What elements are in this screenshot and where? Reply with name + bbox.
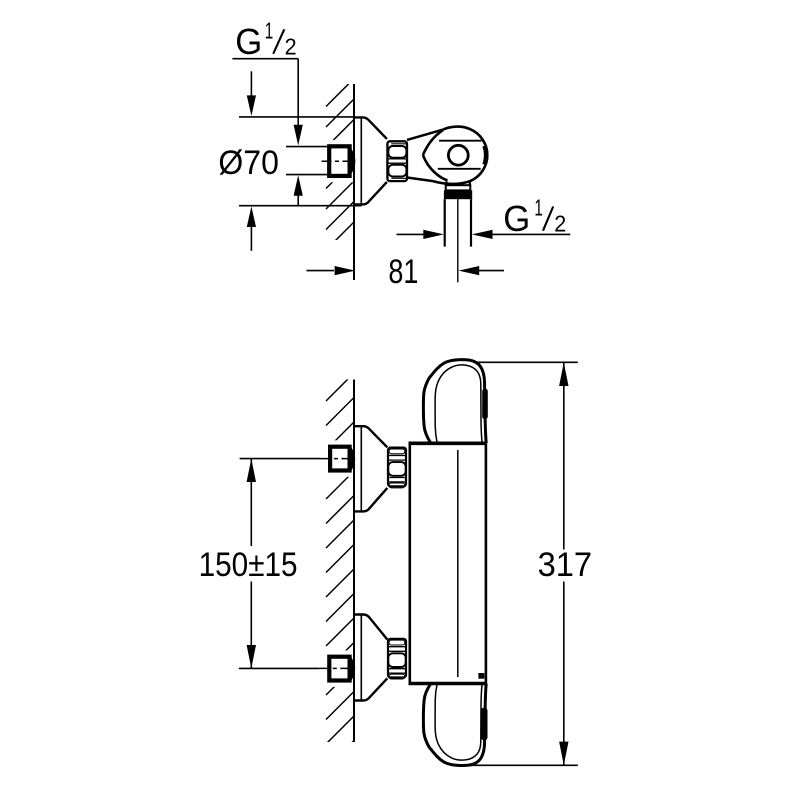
hex nut [387,141,407,181]
317 ext top [473,361,578,363]
grip line bottom [438,168,481,170]
upper flange outline bottom [354,488,387,512]
upper flange outline top [354,426,387,447]
svg-text:Ø70: Ø70 [218,144,279,182]
bottom knob outer [423,684,486,766]
top knob clip [482,389,488,420]
handle teardrop lower arc [423,155,448,180]
top knob inner [435,365,482,443]
thread dim line bottom [286,174,328,176]
hex nut bottom chamfer lens [391,177,406,179]
S-union ball end [350,151,353,173]
lower S-union square [329,657,349,681]
hose thread dim [397,233,424,235]
upper S-union ball end [350,449,353,469]
wall hatching (bottom figure) [326,373,354,769]
bottom knob clip [481,708,488,741]
hex nut facet lines [388,158,407,160]
white halo around wall union [323,140,354,182]
upper S-union square [330,447,350,471]
hex nut top chamfer lens [391,143,406,145]
outlet collar [446,185,471,190]
svg-text:G: G [235,21,262,62]
flange OD dim line top [239,116,354,118]
top knob outer [423,360,486,443]
body top edge [409,441,487,445]
escutcheon flange outline bottom [354,182,387,205]
thread dim line top [286,146,328,148]
svg-text:150±15: 150±15 [199,546,298,584]
body bottom edge [409,682,487,686]
outlet neck [446,182,448,186]
150 dim vertical [250,459,252,546]
OD arrow up [250,227,252,251]
wall surface line [353,380,355,743]
svg-text:2: 2 [285,34,297,60]
lower hex nut [388,639,406,678]
svg-text:317: 317 [538,546,593,584]
OD arrow down [250,71,252,96]
upper hex nut [388,448,406,487]
flange OD dim line bottom [239,205,362,207]
317 dim vertical [563,362,565,549]
thread arrow up [297,195,299,206]
upper ext/centerline [240,458,321,460]
81 dim line right [459,266,480,275]
svg-text:1: 1 [265,18,274,44]
white halo around lower union [323,650,354,687]
body inner line [457,450,459,677]
S-union square body [329,146,349,176]
grip line top [439,140,481,142]
svg-text:1: 1 [534,195,543,221]
white halo around upper union [323,440,354,477]
317 ext bottom [451,764,578,766]
lower S-union ball end [350,659,353,679]
svg-text:2: 2 [554,211,566,237]
diverter tick [478,673,484,679]
valve head outline [433,127,487,184]
lower ext/centerline [239,667,319,669]
bottom knob inner [435,684,482,761]
handle hub circle [448,145,468,165]
outlet nut (dark band) [444,190,472,199]
lower flange outline bottom [354,678,387,700]
body sides [408,443,411,683]
svg-text:81: 81 [388,253,418,291]
svg-text:G: G [503,198,530,239]
union centerline (dashed) [322,160,356,162]
wall surface line [353,84,355,280]
leader arrow down [294,125,303,146]
escutcheon flange outline top [354,117,387,138]
valve cone top line [407,129,444,140]
lower flange outline top [354,615,387,640]
handle teardrop upper arc [423,130,443,155]
pipe centerline [457,199,459,282]
valve cone bottom line [407,178,433,182]
upper flange face [360,426,362,511]
head end cap [485,146,487,165]
hex nut facet barrels [388,146,406,158]
outlet pipe [444,199,446,246]
lower flange face [360,615,362,701]
escutcheon flange face [360,118,362,205]
81 dim line left [307,270,335,272]
G1/2 leader line [232,58,298,60]
wall hatching (top figure) [326,79,354,271]
